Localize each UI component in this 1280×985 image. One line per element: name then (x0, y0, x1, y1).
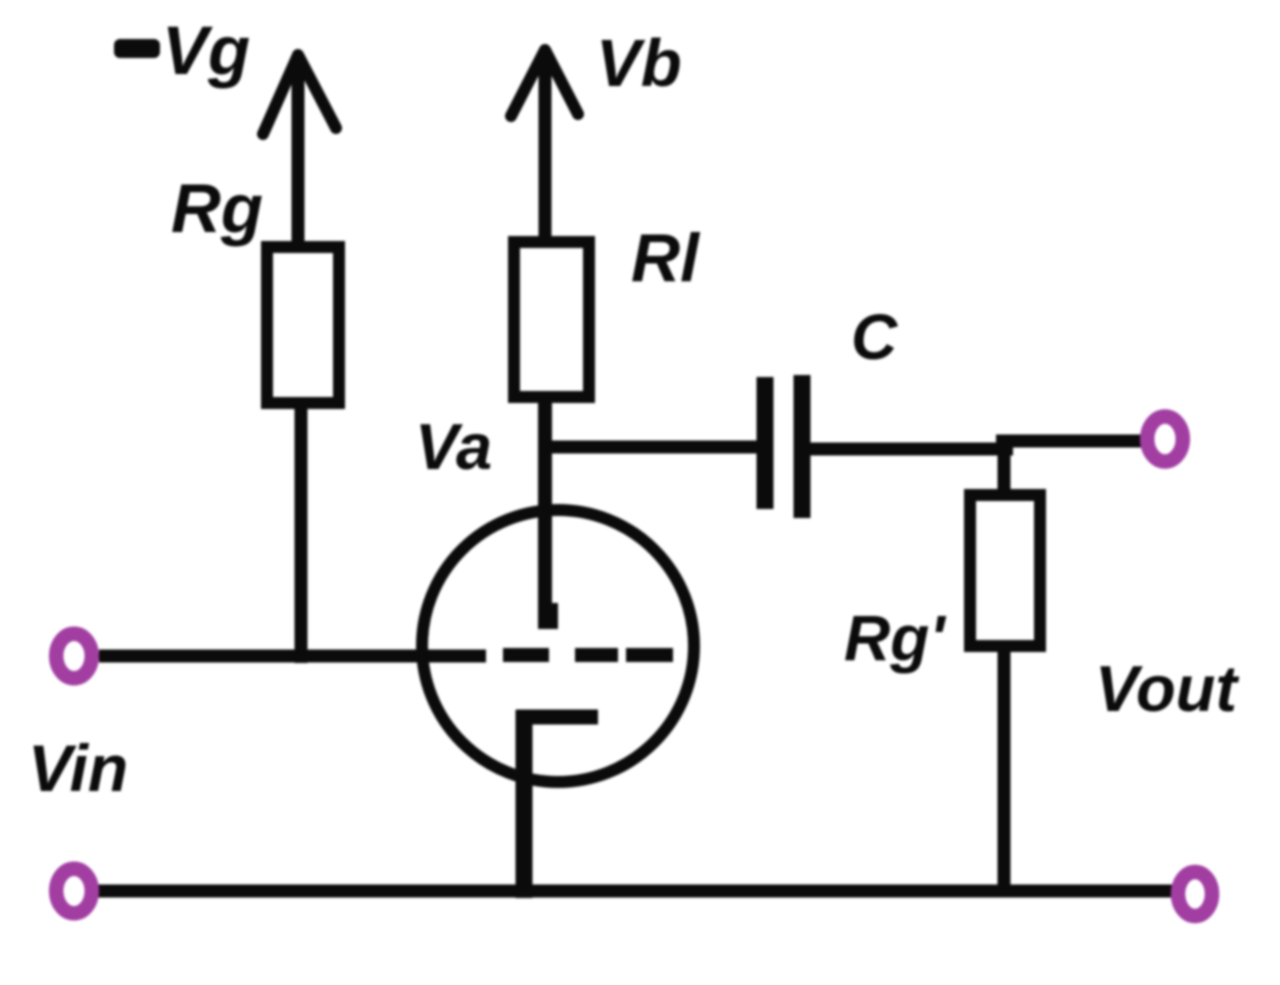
label -Vg minus sign (114, 39, 160, 58)
resistor Rg' (970, 495, 1040, 646)
wire anode lead from Rl through node Va into tube (538, 397, 552, 629)
power arrow -Vg shaft (292, 64, 305, 243)
triode cathode lead (516, 710, 533, 898)
triode envelope circle (422, 510, 694, 782)
wire bottom rail (98, 885, 1173, 898)
wire input from terminal to grid (99, 650, 486, 663)
svg-text:Va: Va (415, 410, 492, 483)
wire node to output terminal (996, 435, 1142, 448)
svg-text:Rg': Rg' (844, 602, 946, 674)
triode grid dash 3 (626, 648, 673, 662)
wire node Va horizontal (545, 441, 758, 454)
capacitor C left plate (757, 377, 774, 509)
terminal output top (1147, 417, 1183, 462)
resistor Rg (267, 247, 339, 403)
svg-text:Vg: Vg (162, 12, 250, 89)
terminal output bottom (1178, 872, 1212, 916)
wire output node down to Rg' (998, 445, 1011, 495)
resistor Rl (514, 242, 589, 397)
triode cathode bar (516, 710, 598, 725)
power arrow -Vg head (263, 55, 336, 134)
svg-text:Vb: Vb (596, 26, 682, 101)
triode grid dash 1 (503, 648, 549, 662)
svg-text:Vin: Vin (28, 731, 128, 805)
wire Rg' bottom to rail (998, 646, 1011, 891)
wire Rg bottom to grid wire (295, 403, 308, 663)
triode grid dash 2 (575, 648, 618, 662)
terminal input bottom (56, 869, 92, 914)
capacitor C right plate (794, 375, 811, 518)
svg-text:Rg: Rg (171, 170, 263, 247)
terminal input top (56, 634, 92, 679)
power arrow Vb shaft (539, 58, 552, 242)
svg-text:Vout: Vout (1095, 652, 1239, 725)
power arrow Vb head (511, 50, 578, 116)
svg-text:C: C (851, 301, 898, 373)
svg-text:Rl: Rl (631, 220, 701, 296)
anode tip bump (545, 603, 558, 629)
wire capacitor to node (810, 443, 1013, 456)
